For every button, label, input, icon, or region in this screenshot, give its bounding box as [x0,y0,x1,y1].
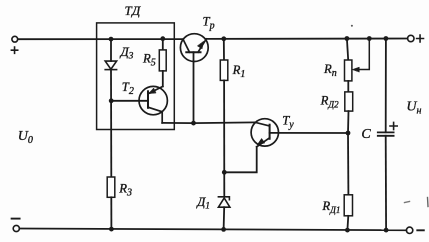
transistor T2 [139,86,167,123]
svg-text:R5: R5 [142,52,156,69]
junction T2 base [109,98,114,103]
capacitor C [378,132,394,135]
wire R3 to bottom rail [110,197,112,229]
svg-text:U0: U0 [18,129,33,146]
junction bottom rail at R3 [109,227,114,232]
wire D1 anode to bottom rail [223,207,226,229]
transistor Tp [180,34,208,62]
resistor Rd2 [345,92,353,111]
terminal output plus [408,35,414,41]
diode D1 zener [218,197,230,207]
wire Rd1 to bottom rail [346,216,349,230]
svg-text:RД1: RД1 [321,199,340,215]
wire R1 bottom to zener node [223,80,225,196]
wiper arrow Rp [352,39,369,72]
wire Rd2 to tap node [347,111,350,133]
resistor R3 [107,177,115,197]
label - output [417,229,424,231]
potentiometer Rp [345,60,352,81]
junction top rail at Rp [345,36,350,41]
label + capacitor [390,122,397,129]
junction bottom rail at D1 [221,227,226,232]
svg-text:R3: R3 [118,182,132,199]
wire Rp to Rd2 [347,81,349,92]
terminal output minus [406,227,412,233]
wire Tp base down [193,52,195,123]
junction top rail at R5 [160,36,165,41]
svg-text:Uн: Uн [406,100,421,117]
junction top rail at R1 [221,36,226,41]
terminal input minus [13,225,19,231]
wire top rail left [18,38,183,40]
wire Rp top [347,39,348,61]
svg-text:Rп: Rп [323,62,337,79]
svg-text:Ту: Ту [282,114,294,131]
wire Ty emitter to zener node [224,147,256,173]
wire top rail right [206,38,407,40]
svg-text:Тр: Тр [203,15,215,32]
speck artifact right edge [427,198,429,207]
speck artifact right middle [405,202,410,203]
svg-text:Д1: Д1 [196,195,210,212]
label + output [417,35,424,42]
speck artifact near top [351,25,353,27]
wire Ty base to divider [270,132,348,134]
box TD [97,23,175,130]
junction Tp base node [191,121,196,126]
svg-text:С: С [361,127,371,142]
junction zener node [222,170,227,175]
svg-text:ТД: ТД [125,3,142,18]
wire R5 bottom to T2 emitter [162,71,164,87]
diode D3 [105,61,116,70]
svg-text:RД2: RД2 [320,94,339,110]
terminal input plus [12,36,18,42]
wire R1 top [223,39,225,60]
label - input [12,218,20,220]
wire capacitor bottom [385,136,387,230]
resistor Rd1 [344,195,352,216]
wire tap node to Rd1 [347,133,349,195]
wire R5 top [162,39,164,50]
wire capacitor top [385,39,387,133]
svg-text:R1: R1 [232,63,246,80]
wire D3 anode from rail [110,39,112,61]
junction divider tap [346,131,351,136]
junction top rail at wiper [367,36,372,41]
wire bottom rail [20,229,407,231]
resistor R1 [220,60,228,80]
junction top rail at D3 [109,37,114,42]
transistor Ty [251,119,278,147]
junction bottom rail at C [384,228,389,233]
junction bottom rail at Rd1 [345,228,350,233]
resistor R5 [159,50,166,71]
svg-text:Д3: Д3 [120,45,134,62]
svg-text:Т2: Т2 [122,80,134,97]
junction top rail at C [384,36,389,41]
wire D3 cathode down to R3 [110,70,112,177]
label + input [11,47,17,53]
wire T2 collector to Ty collector [162,121,255,124]
wire T2 base [111,100,148,102]
